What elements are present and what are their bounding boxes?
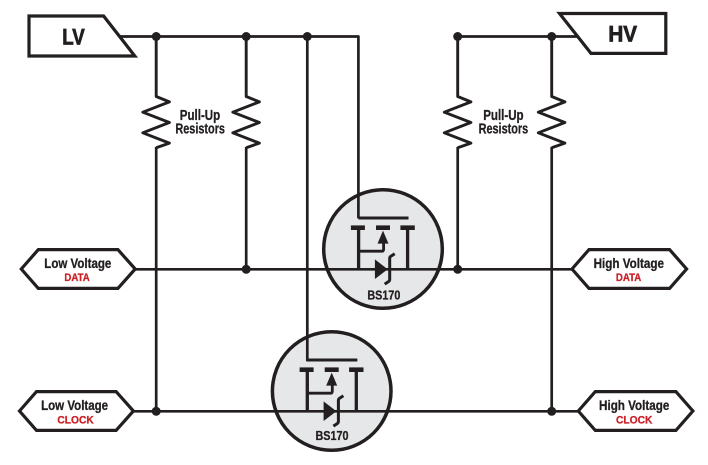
svg-text:High Voltage: High Voltage bbox=[599, 398, 670, 413]
svg-text:CLOCK: CLOCK bbox=[616, 415, 653, 427]
resistor R4 (HV pull-up to CLOCK) bbox=[538, 37, 565, 148]
node dot: CLOCK / R4 bbox=[547, 407, 556, 416]
svg-text:Low Voltage: Low Voltage bbox=[44, 256, 111, 271]
wire: R3 to DATA bbox=[456, 147, 459, 269]
svg-text:Resistors: Resistors bbox=[175, 120, 225, 137]
resistor R2 (LV pull-up to DATA) bbox=[233, 37, 260, 148]
svg-text:Resistors: Resistors bbox=[479, 120, 529, 137]
svg-text:BS170: BS170 bbox=[367, 289, 400, 303]
node dot: LV rail / R1 bbox=[152, 32, 161, 41]
svg-text:HV: HV bbox=[608, 22, 637, 47]
node dot: DATA / R2 bbox=[242, 265, 251, 274]
wire: gate drop of Q2 from LV rail bbox=[307, 37, 357, 361]
transistor Q2 symbol (BS170 on CLOCK) bbox=[300, 360, 364, 426]
svg-text:LV: LV bbox=[62, 24, 85, 49]
svg-text:CLOCK: CLOCK bbox=[57, 415, 94, 427]
svg-text:BS170: BS170 bbox=[316, 429, 349, 443]
node dot: CLOCK / R1 bbox=[152, 407, 161, 416]
node dot: DATA / R3 bbox=[453, 265, 462, 274]
wire: R2 to DATA bbox=[245, 147, 248, 269]
port High Voltage CLOCK hexagon bbox=[578, 392, 693, 431]
wire: DATA line bbox=[134, 268, 575, 271]
node dot: LV rail / R2 bbox=[242, 32, 251, 41]
wire: R4 to CLOCK bbox=[550, 147, 553, 411]
port Low Voltage DATA hexagon bbox=[21, 250, 135, 289]
port Low Voltage CLOCK hexagon bbox=[20, 392, 134, 431]
wire: CLOCK line bbox=[133, 410, 581, 413]
svg-text:Low Voltage: Low Voltage bbox=[41, 398, 108, 413]
LV supply flag bbox=[29, 16, 135, 56]
transistor Q1 body circle (DATA BS170) bbox=[324, 190, 443, 309]
svg-text:DATA: DATA bbox=[616, 272, 641, 284]
transistor Q1 symbol (BS170 on DATA) bbox=[351, 218, 415, 284]
HV supply flag bbox=[560, 14, 666, 54]
port High Voltage DATA hexagon bbox=[572, 250, 687, 289]
transistor Q2 body circle (CLOCK BS170) bbox=[272, 332, 391, 451]
svg-text:High Voltage: High Voltage bbox=[594, 256, 665, 271]
node dot: LV rail / Q2 gate bbox=[303, 32, 312, 41]
wire: LV rail with gate drop of Q1 bbox=[117, 37, 358, 219]
node dot: HV rail / R4 bbox=[547, 32, 556, 41]
svg-text:DATA: DATA bbox=[64, 272, 89, 284]
node dot: HV rail / R3 bbox=[453, 32, 462, 41]
resistor R3 (HV pull-up to DATA) bbox=[444, 37, 471, 148]
resistor R1 (LV pull-up to CLOCK) bbox=[143, 37, 170, 148]
wire: R1 to CLOCK bbox=[155, 147, 158, 411]
wire: HV rail bbox=[458, 35, 580, 38]
